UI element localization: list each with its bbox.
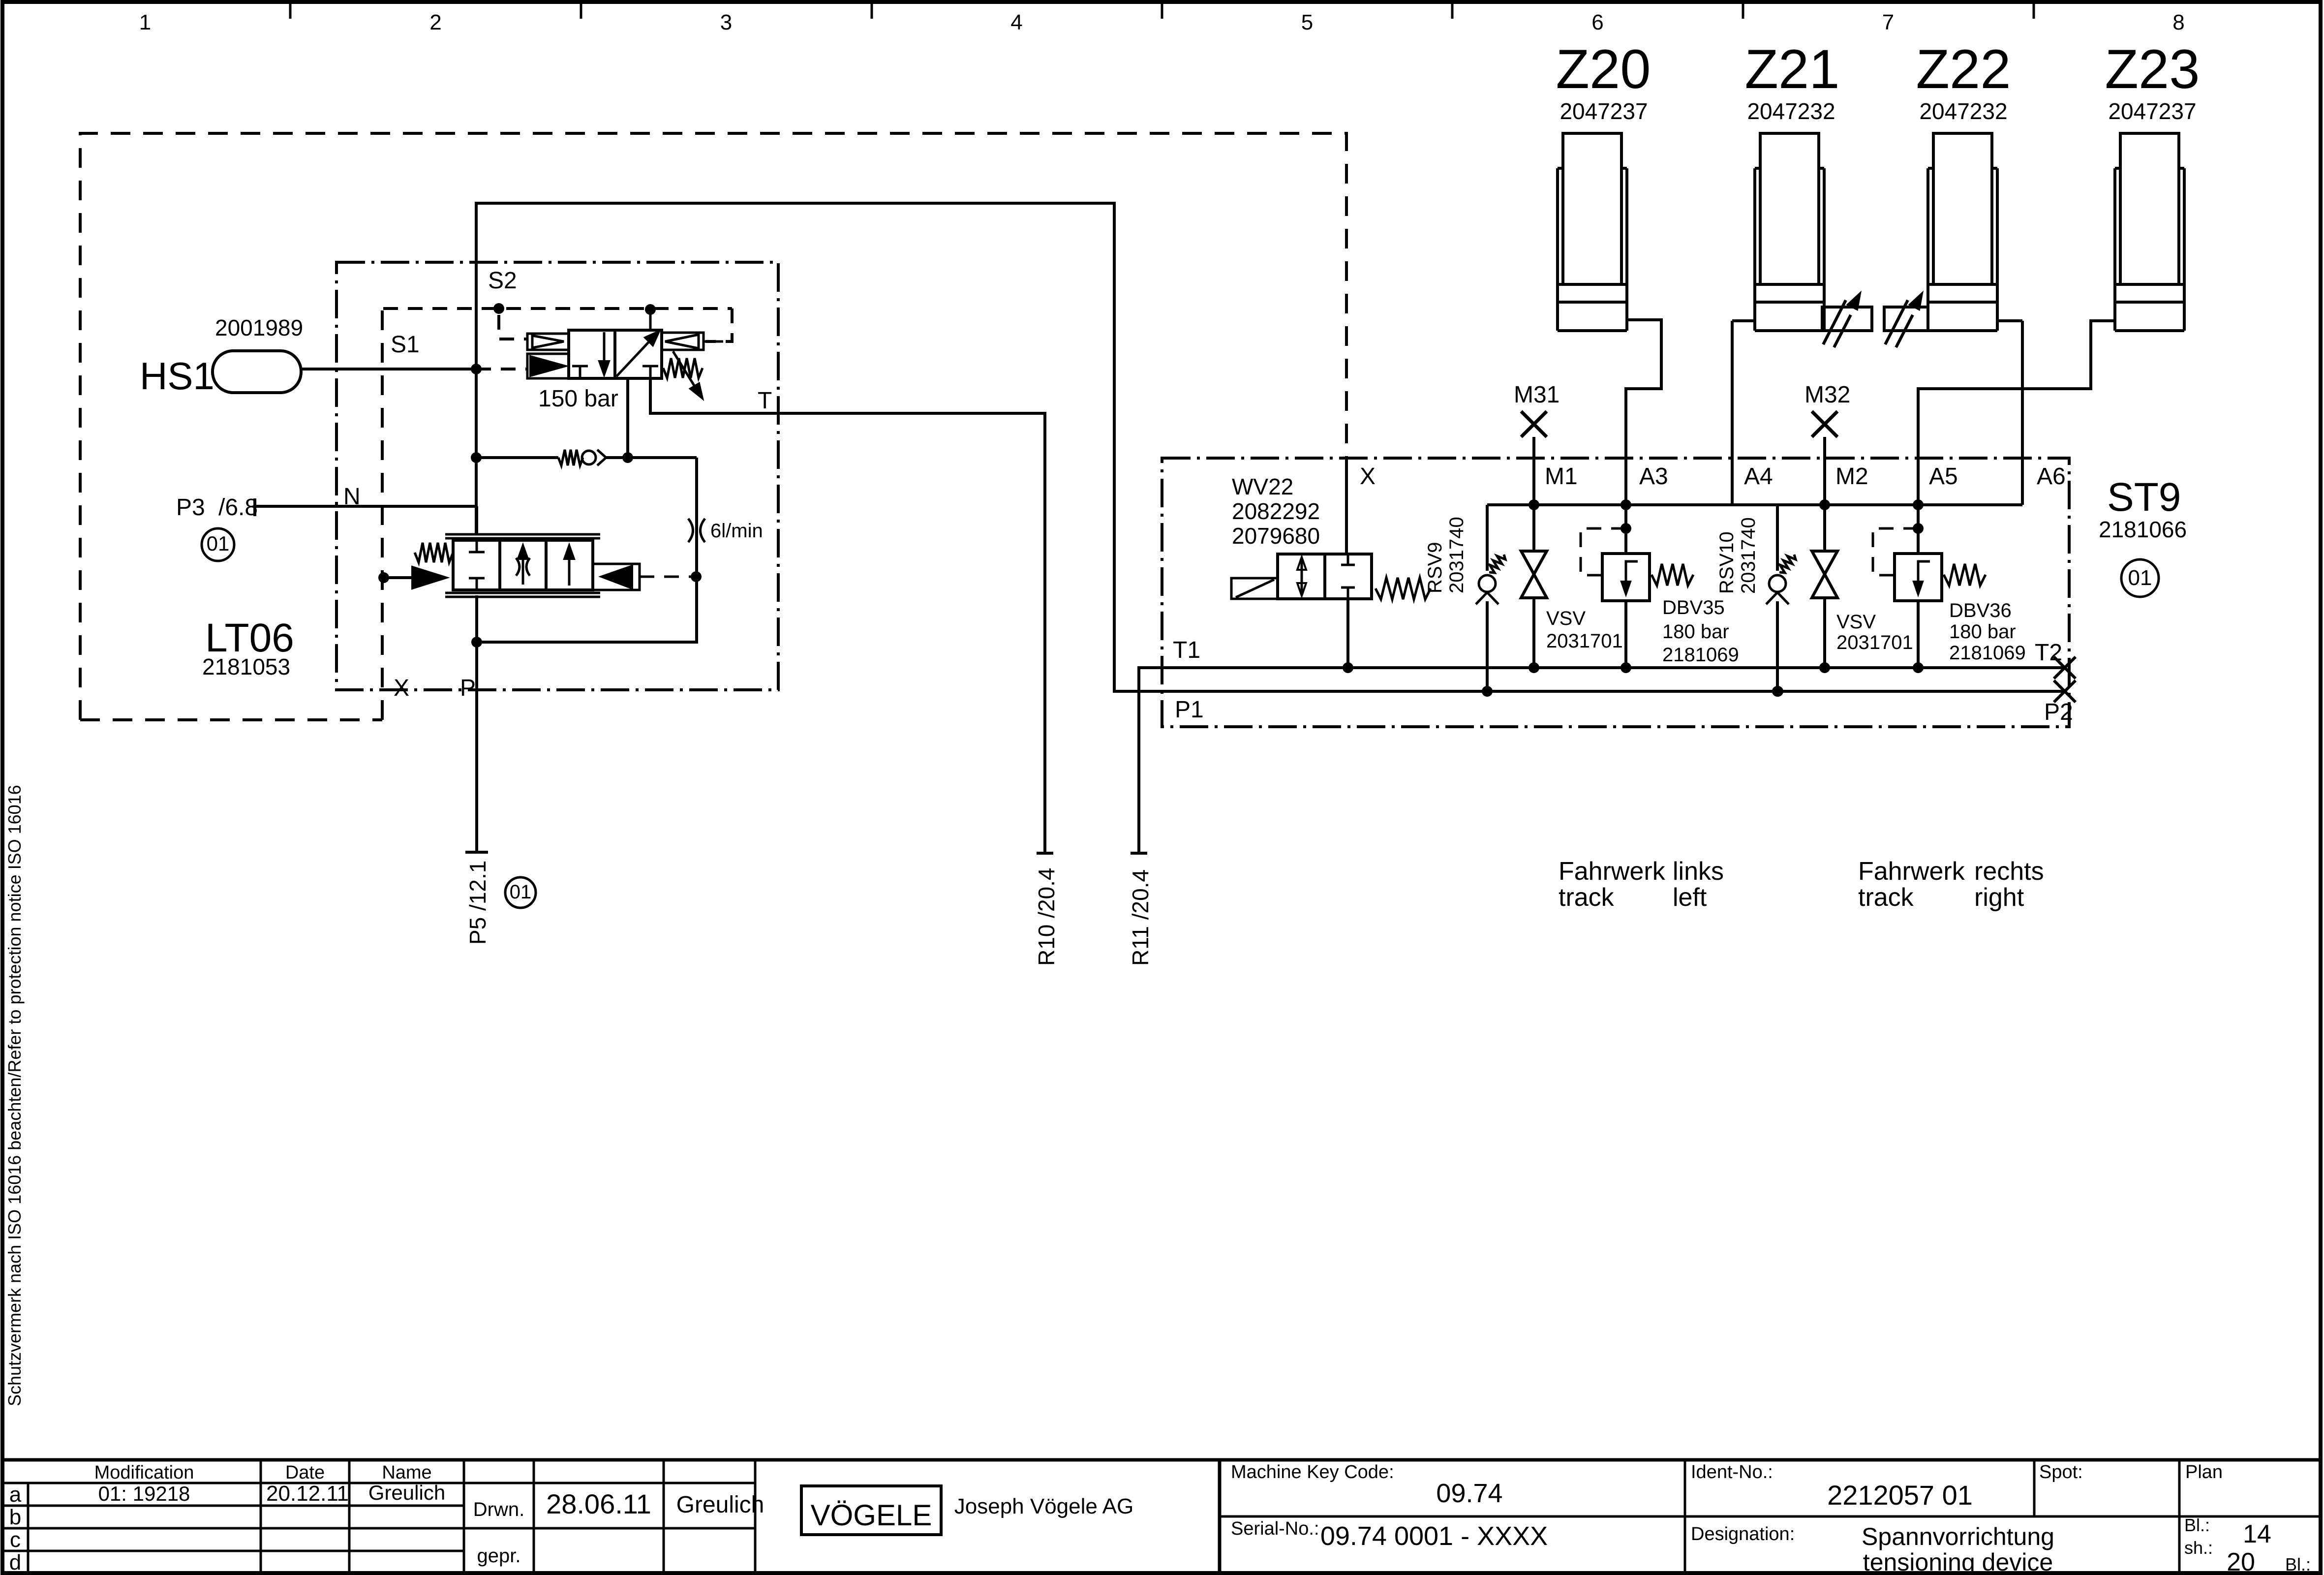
svg-text:2031740: 2031740	[1446, 517, 1468, 593]
svg-text:2082292: 2082292	[1232, 498, 1320, 524]
svg-text:20.12.11: 20.12.11	[266, 1482, 349, 1506]
svg-text:180 bar: 180 bar	[1949, 621, 2016, 643]
svg-text:sh.:: sh.:	[2184, 1538, 2213, 1558]
svg-text:DBV36: DBV36	[1949, 600, 2012, 621]
svg-text:2047237: 2047237	[1560, 98, 1648, 124]
svg-text:3: 3	[720, 10, 732, 34]
svg-text:Serial-No.:: Serial-No.:	[1231, 1518, 1319, 1539]
svg-text:4: 4	[1010, 10, 1022, 34]
svg-text:P1: P1	[1175, 697, 1204, 723]
svg-text:S1: S1	[391, 332, 420, 358]
svg-text:track: track	[1858, 883, 1914, 912]
svg-text:Name: Name	[382, 1462, 431, 1483]
svg-text:Fahrwerk: Fahrwerk	[1559, 857, 1666, 886]
svg-text:2047237: 2047237	[2108, 98, 2196, 124]
svg-text:X: X	[394, 675, 409, 701]
svg-text:DBV35: DBV35	[1662, 597, 1725, 618]
svg-text:/6.8: /6.8	[218, 494, 258, 521]
svg-text:R10 /20.4: R10 /20.4	[1034, 868, 1059, 966]
svg-text:01: 19218: 01: 19218	[98, 1482, 190, 1505]
svg-text:2: 2	[429, 10, 441, 34]
svg-text:20: 20	[2227, 1548, 2255, 1575]
svg-text:A5: A5	[1929, 463, 1958, 490]
svg-text:Date: Date	[285, 1462, 325, 1483]
svg-text:Z22: Z22	[1916, 38, 2011, 100]
svg-text:2212057 01: 2212057 01	[1827, 1480, 1973, 1511]
svg-text:ST9: ST9	[2107, 475, 2181, 520]
svg-text:P3: P3	[176, 494, 205, 521]
svg-text:Modification: Modification	[94, 1462, 194, 1483]
svg-text:Bl.:: Bl.:	[2285, 1554, 2311, 1575]
svg-text:Greulich: Greulich	[676, 1492, 764, 1518]
svg-text:A3: A3	[1639, 463, 1668, 490]
svg-text:01: 01	[2128, 566, 2152, 590]
svg-text:Spannvorrichtung: Spannvorrichtung	[1862, 1523, 2054, 1550]
svg-text:2031740: 2031740	[1738, 517, 1759, 594]
svg-text:Spot:: Spot:	[2039, 1462, 2083, 1482]
svg-text:track: track	[1559, 883, 1615, 912]
svg-text:2181066: 2181066	[2099, 517, 2187, 542]
svg-text:14: 14	[2243, 1520, 2271, 1548]
svg-text:Z20: Z20	[1556, 38, 1651, 100]
svg-text:2001989: 2001989	[215, 315, 303, 340]
svg-text:5: 5	[1301, 10, 1313, 34]
svg-text:T2: T2	[2035, 640, 2062, 666]
svg-text:150 bar: 150 bar	[538, 386, 618, 412]
svg-text:a: a	[9, 1482, 22, 1507]
svg-text:1: 1	[139, 10, 151, 34]
svg-text:09.74: 09.74	[1436, 1479, 1502, 1508]
svg-text:N: N	[343, 484, 361, 510]
svg-text:Schutzvermerk nach ISO 16016 b: Schutzvermerk nach ISO 16016 beachten/Re…	[4, 785, 25, 1406]
svg-text:X: X	[1360, 463, 1376, 490]
svg-text:VSV: VSV	[1836, 611, 1876, 633]
svg-text:VÖGELE: VÖGELE	[811, 1499, 932, 1532]
svg-text:2181069: 2181069	[1949, 642, 2026, 664]
svg-text:links: links	[1673, 857, 1724, 886]
svg-text:M32: M32	[1804, 382, 1850, 408]
svg-text:09.74 0001 - XXXX: 09.74 0001 - XXXX	[1320, 1521, 1548, 1551]
svg-text:rechts: rechts	[1974, 857, 2044, 886]
svg-text:2047232: 2047232	[1747, 98, 1835, 124]
svg-text:d: d	[9, 1550, 21, 1575]
svg-text:2031701: 2031701	[1836, 632, 1913, 653]
svg-text:c: c	[10, 1528, 21, 1552]
svg-text:RSV9: RSV9	[1424, 542, 1446, 594]
svg-text:28.06.11: 28.06.11	[546, 1488, 651, 1519]
svg-text:M2: M2	[1835, 463, 1868, 490]
svg-text:gepr.: gepr.	[477, 1545, 521, 1567]
svg-text:S2: S2	[488, 268, 517, 294]
svg-text:Greulich: Greulich	[368, 1481, 445, 1504]
svg-text:P2: P2	[2044, 699, 2073, 725]
svg-text:7: 7	[1882, 10, 1894, 34]
svg-text:6: 6	[1591, 10, 1603, 34]
svg-text:T: T	[758, 388, 772, 414]
svg-text:Machine Key Code:: Machine Key Code:	[1231, 1462, 1394, 1482]
svg-text:2079680: 2079680	[1232, 523, 1320, 549]
svg-text:Plan: Plan	[2185, 1462, 2223, 1482]
svg-text:Ident-No.:: Ident-No.:	[1691, 1462, 1773, 1482]
svg-text:2031701: 2031701	[1546, 630, 1623, 652]
svg-text:6l/min: 6l/min	[710, 520, 763, 542]
svg-text:2047232: 2047232	[1919, 98, 2007, 124]
svg-text:A6: A6	[2037, 463, 2066, 490]
svg-text:T1: T1	[1173, 637, 1200, 663]
svg-text:b: b	[9, 1505, 21, 1529]
svg-text:P: P	[460, 675, 476, 701]
svg-text:01: 01	[207, 532, 230, 555]
svg-text:2181069: 2181069	[1662, 644, 1739, 666]
svg-text:Drwn.: Drwn.	[473, 1499, 524, 1520]
svg-text:Bl.:: Bl.:	[2184, 1515, 2210, 1535]
svg-text:2181053: 2181053	[202, 654, 290, 679]
svg-text:P5 /12.1: P5 /12.1	[465, 861, 490, 945]
svg-text:A4: A4	[1744, 463, 1773, 490]
svg-text:HS1: HS1	[140, 354, 214, 398]
svg-text:180 bar: 180 bar	[1662, 621, 1729, 643]
svg-text:left: left	[1673, 883, 1707, 912]
svg-text:01: 01	[510, 881, 532, 903]
svg-text:RSV10: RSV10	[1716, 531, 1738, 594]
svg-text:Z23: Z23	[2105, 38, 2200, 100]
svg-text:8: 8	[2172, 10, 2184, 34]
svg-text:M1: M1	[1545, 463, 1578, 490]
svg-text:tensioning device: tensioning device	[1863, 1548, 2053, 1575]
svg-text:Z21: Z21	[1745, 38, 1840, 100]
svg-text:Designation:: Designation:	[1691, 1524, 1795, 1544]
svg-text:Joseph Vögele AG: Joseph Vögele AG	[954, 1494, 1133, 1518]
svg-text:VSV: VSV	[1546, 608, 1586, 629]
svg-text:M31: M31	[1514, 382, 1560, 408]
svg-text:R11 /20.4: R11 /20.4	[1128, 869, 1153, 966]
svg-text:right: right	[1974, 883, 2024, 912]
svg-text:WV22: WV22	[1232, 474, 1293, 499]
svg-text:Fahrwerk: Fahrwerk	[1858, 857, 1965, 886]
